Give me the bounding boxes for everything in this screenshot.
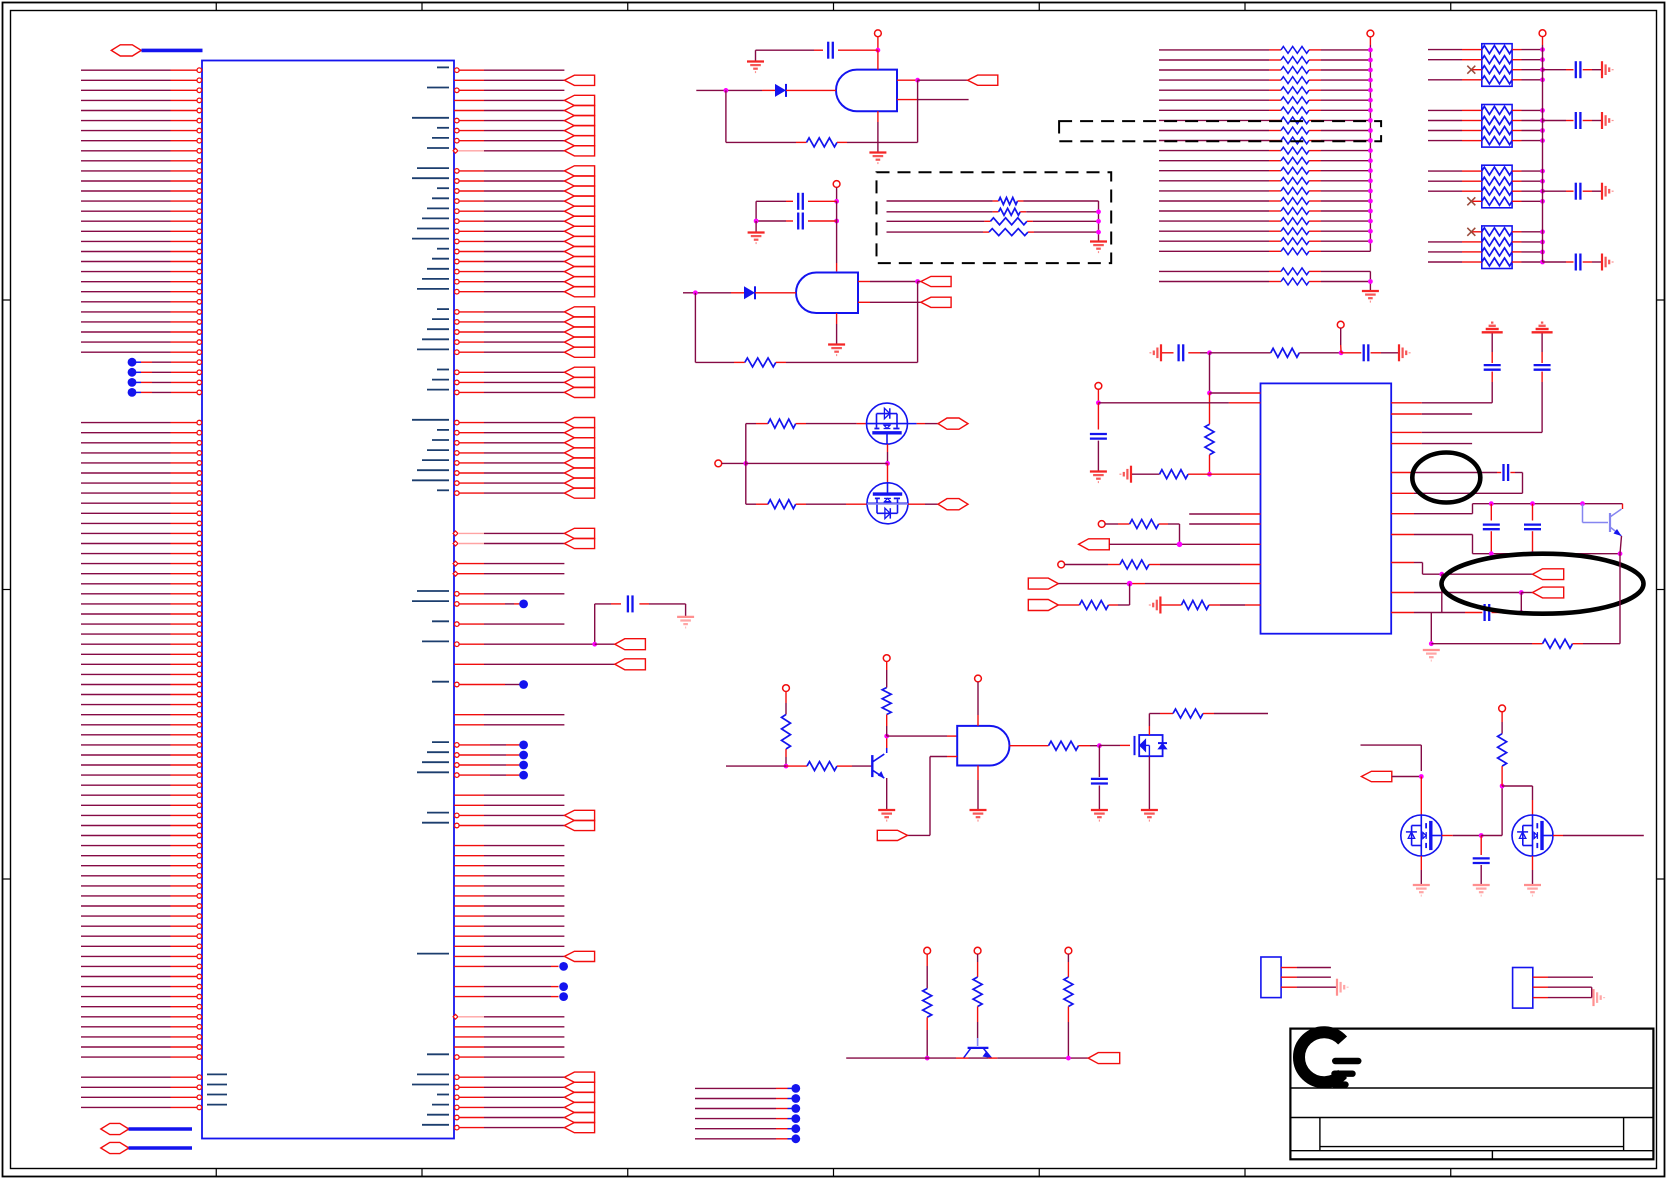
node junction JA9 bbox=[1368, 138, 1373, 143]
IC U1 left pin row 7 wire bbox=[81, 138, 202, 143]
capacitor C4 (vertical) bbox=[1091, 778, 1108, 780]
IC U1 right pin row 16 wire bbox=[417, 226, 595, 236]
node junction J5 bbox=[834, 219, 839, 224]
IC U1 left pin row 2 wire bbox=[81, 88, 202, 93]
wire corner RB rows to ground bbox=[1369, 271, 1371, 290]
IC U1 left pin row 30 wire with junction bbox=[128, 368, 202, 377]
IC U1 right pin row 6 wire bbox=[437, 126, 595, 136]
ground GND16 bbox=[1473, 884, 1490, 886]
node junction J4 bbox=[834, 199, 839, 204]
wire U2 input stub row2 bbox=[897, 99, 969, 101]
IC U1 left pin row 95 wire bbox=[81, 1025, 202, 1030]
wire R5 down to JC1 bbox=[785, 749, 787, 766]
IC U1 left pin row 17 wire bbox=[81, 239, 202, 244]
IC U1 left pin row 56 wire bbox=[81, 632, 202, 637]
wire CN2 pin2 corner down bbox=[1533, 987, 1592, 997]
wire R14 down to J12 bbox=[1209, 455, 1211, 474]
IC U1 right pin row 52 wire bbox=[417, 591, 564, 596]
IC U1 left pin row 42 wire bbox=[81, 491, 202, 496]
wire cap C2 row bbox=[756, 200, 793, 202]
border tick top 4 bbox=[833, 3, 835, 11]
node junction JP13 bbox=[1540, 138, 1545, 143]
capacitor C7 (vertical) bbox=[1090, 433, 1107, 435]
power pin PIN_L3 bbox=[1058, 561, 1065, 568]
wire VCC3 down to R5 bbox=[785, 692, 787, 715]
transistor Q4 (NPN sideways) bbox=[964, 1048, 992, 1058]
ground GND22 (inverted) bbox=[1532, 331, 1553, 333]
capacitor C5 bbox=[1177, 344, 1179, 361]
node junction J19 bbox=[1618, 551, 1623, 556]
node junction JA5 bbox=[1368, 98, 1373, 103]
IC U1 right pin row 77 wire bbox=[454, 845, 564, 847]
wire J9 down to J11 bbox=[1209, 353, 1211, 393]
power pin VCC7 bbox=[974, 947, 981, 954]
wire J4-J5 and down to U3 top bbox=[836, 201, 838, 271]
capacitor C13 (vertical) bbox=[1484, 364, 1501, 366]
wire PORT12 to J25 to U5 bbox=[1058, 583, 1260, 585]
resistor R16 bbox=[1543, 639, 1573, 648]
resistor RA20 row (array) bbox=[1159, 248, 1370, 255]
wire GND14 to R15 bbox=[1132, 473, 1160, 475]
IC U1 left pin row 21 wire bbox=[81, 279, 202, 284]
port PORT8 (arrow) bbox=[1533, 569, 1564, 580]
border tick right 3 bbox=[1657, 878, 1665, 880]
node junction JP01 bbox=[1540, 57, 1545, 62]
resistor RN2a row in dashed box bbox=[887, 198, 1099, 205]
node junction JA17 bbox=[1368, 219, 1373, 224]
capacitor CP4 bbox=[1543, 254, 1602, 271]
IC U1 left pin row 38 wire bbox=[81, 451, 202, 456]
resistor RP3a row bbox=[1428, 167, 1543, 175]
ground GND18 bbox=[1524, 884, 1541, 886]
resistor RA19 row (array) bbox=[1159, 238, 1370, 245]
node junction JM1 bbox=[743, 461, 748, 466]
and-gate U3 (left facing) bbox=[796, 273, 858, 314]
IC U1 right pin row 96 wire bbox=[454, 1036, 564, 1038]
IC U1 left pin row 5 wire bbox=[81, 118, 202, 123]
IC U1 right pin row 97 wire bbox=[454, 1046, 564, 1048]
IC U1 right pin row 79 wire bbox=[454, 865, 564, 867]
wire U5 pin row 612.5 to C11 bbox=[1391, 612, 1482, 614]
wire left riser top/bottom bbox=[745, 424, 747, 505]
title block line 1 bbox=[1290, 1087, 1653, 1089]
node junction JE3 bbox=[1500, 784, 1505, 789]
border tick top 6 bbox=[1244, 3, 1246, 11]
port PORT2 (arrow) bbox=[921, 276, 951, 286]
title block line 4 bbox=[1290, 1150, 1653, 1152]
IC U1 right pin row 69 wire to junction dot bbox=[422, 761, 528, 770]
IC U1 left pin row 26 wire bbox=[81, 330, 202, 335]
resistor RP1c row bbox=[1467, 66, 1542, 74]
node junction J16 bbox=[1580, 501, 1585, 506]
IC U1 left pin row 12 wire bbox=[81, 189, 202, 194]
wire JE3 right to M5 bbox=[1502, 786, 1532, 815]
capacitor C11 bbox=[1483, 604, 1485, 621]
IC U1 left pin row 9 wire bbox=[81, 159, 202, 164]
wire U2 bottom to ground bbox=[877, 142, 879, 151]
resistor RA3 row (array) bbox=[1159, 77, 1370, 84]
node junction JB3 bbox=[1096, 230, 1101, 235]
border tick bottom 5 bbox=[1038, 1169, 1040, 1177]
capacitor C9 (vertical) with leads bbox=[1483, 504, 1500, 554]
wire VCC12 to R17 bbox=[1501, 712, 1503, 734]
capacitor C3 bbox=[797, 213, 799, 230]
and-gate U2 (left facing) bbox=[836, 70, 897, 112]
ground GND_P4 (rotated) bbox=[1601, 254, 1603, 271]
IC U1 right pin row 105 wire bbox=[422, 1123, 595, 1133]
logo bar 1 bbox=[1335, 1058, 1358, 1064]
IC U1 right pin row 3 wire bbox=[454, 95, 595, 105]
IC U1 right pin row 12 wire bbox=[437, 186, 595, 196]
wire M5 source to GND18 bbox=[1532, 856, 1534, 884]
wire U5 pin right row1 to riser bbox=[1391, 372, 1492, 403]
IC U1 left pin row 43 wire bbox=[81, 501, 202, 506]
wire row 612.5 drop to bottom rail bbox=[1430, 613, 1432, 644]
ground GND5 bbox=[1090, 240, 1107, 242]
IC U1 left pin row 6 wire bbox=[81, 128, 202, 133]
ground GND10 bbox=[1362, 290, 1379, 292]
bus wire from P_TOP to IC U1 bbox=[142, 49, 203, 53]
node junction JP31 bbox=[1540, 240, 1545, 245]
resistor R5 (vertical) bbox=[782, 715, 791, 750]
border tick top 7 bbox=[1450, 3, 1452, 11]
wire U5 pin right row3 to riser bbox=[1391, 372, 1542, 433]
IC U1 left pin row 46 wire bbox=[81, 531, 202, 536]
wire JE2 down to C12 bbox=[1480, 836, 1482, 856]
wire JC3 to M3 gate bbox=[1099, 744, 1120, 746]
wire VCC7 to R11 bbox=[977, 954, 979, 977]
wire U5 left pin row 514 (flat) bbox=[1189, 513, 1260, 515]
IC U1 right pin row 10 wire bbox=[417, 166, 595, 176]
resistor RN2d row in dashed box bbox=[887, 229, 1099, 236]
IC U5 body bbox=[1261, 383, 1392, 633]
node junction JE1 bbox=[1419, 774, 1424, 779]
resistor R4 bbox=[768, 500, 796, 509]
IC U1 right pin row 84 wire bbox=[454, 915, 564, 917]
wire CN2 pin1 bbox=[1533, 976, 1593, 978]
resistor RA2 row (array) bbox=[1159, 67, 1370, 74]
resistor RA12 row (array) bbox=[1159, 167, 1370, 174]
port PORT1 (arrow) bbox=[968, 75, 998, 85]
wire R15 to J12 to U5 bbox=[1188, 473, 1260, 475]
power pin VCC6 bbox=[924, 947, 931, 954]
IC U1 left pin row 1 wire bbox=[81, 78, 202, 83]
resistor RA6 row (array) bbox=[1159, 107, 1370, 114]
wire bottom rail bbox=[846, 1057, 1088, 1059]
resistor RP3d row bbox=[1467, 197, 1542, 205]
wire U4 input2 from below port bbox=[908, 757, 958, 836]
ground GND14 (rotated, row left) bbox=[1130, 466, 1132, 483]
IC U1 left pin row 63 wire bbox=[81, 702, 202, 707]
wire J9 to R13 bbox=[1210, 352, 1271, 354]
border tick top 5 bbox=[1038, 3, 1040, 11]
IC U1 body (large) bbox=[202, 61, 454, 1139]
wire C4 to ground bbox=[1098, 786, 1100, 810]
node junction J10 bbox=[1339, 350, 1344, 355]
border tick bottom 6 bbox=[1244, 1169, 1246, 1177]
IC U1 left pin row 11 wire bbox=[81, 179, 202, 184]
wire J8 to port PORT2 bbox=[918, 281, 921, 283]
wire PIN_L1 down to J13 bbox=[1097, 389, 1099, 403]
wire PIN_L3 to R19 bbox=[1065, 564, 1120, 566]
wire U5 left pin row 524 (flat) bbox=[1189, 523, 1260, 525]
wire PIN_L2 to R18 bbox=[1105, 523, 1130, 525]
IC U1 left pin row 18 wire bbox=[81, 249, 202, 254]
resistor RP2b row bbox=[1428, 117, 1543, 125]
IC U1 left pin row 57 wire bbox=[81, 642, 202, 647]
port PORT13 (arrow right) row 605 bbox=[1028, 600, 1058, 611]
resistor R6 bbox=[807, 762, 837, 771]
IC U1 right pin row 57 wire with junction and port bbox=[422, 639, 645, 650]
resistor RP4b row bbox=[1428, 238, 1543, 246]
IC U1 left pin row 25 wire bbox=[81, 320, 202, 325]
resistor R1 bbox=[807, 138, 838, 147]
resistor R15 bbox=[1160, 470, 1189, 479]
ground GND_P3 (rotated) bbox=[1601, 183, 1603, 200]
IC U1 left pin row 16 wire bbox=[81, 229, 202, 234]
IC U1 right pin row 15 wire bbox=[422, 216, 595, 226]
IC U1 left pin row 73 wire bbox=[81, 803, 202, 808]
wire JE2 right and up to JE3 bbox=[1481, 786, 1502, 836]
node junction JC3 bbox=[1097, 743, 1102, 748]
IC U1 left pin row 55 wire bbox=[81, 622, 202, 627]
capacitor C_R1 net: wire corner bbox=[595, 603, 621, 605]
wire R6 to Q3 base bbox=[837, 765, 872, 767]
wire C1 to J1 bbox=[838, 49, 878, 51]
IC U1 left pin row 72 wire bbox=[81, 793, 202, 798]
IC U1 right pin row 5 wire bbox=[412, 116, 595, 126]
resistor RN2b row in dashed box bbox=[887, 208, 1099, 215]
IC U1 left pin row 79 wire bbox=[81, 863, 202, 868]
wire C14 up to inverted ground bbox=[1541, 332, 1543, 363]
IC U1 left pin row 58 wire bbox=[81, 652, 202, 657]
capacitor C12 (vertical) bbox=[1473, 857, 1490, 859]
IC U1 right pin row 25 wire bbox=[432, 317, 595, 327]
ground GND4 bbox=[828, 343, 845, 345]
node junction J1 bbox=[876, 48, 881, 53]
IC U1 right pin row 82 wire bbox=[454, 895, 564, 897]
transistor Q5 (light blue) with base wire bbox=[1583, 504, 1622, 536]
node junction JA1 bbox=[1368, 58, 1373, 63]
IC U1 left pin row 67 wire bbox=[81, 743, 202, 748]
IC U1 right pin row 85 wire bbox=[454, 925, 564, 927]
resistor RA5 row (array) bbox=[1159, 97, 1370, 104]
IC U1 right pin row 17 wire bbox=[412, 236, 595, 246]
wire U5 pin row 562.5 step to J20 bbox=[1391, 563, 1442, 575]
node junction JA19 bbox=[1368, 239, 1373, 244]
ground GND1 bbox=[747, 60, 764, 62]
wire cap C3 row bbox=[756, 220, 793, 222]
node junction J6 bbox=[754, 219, 759, 224]
ground GND13 bbox=[1090, 470, 1107, 472]
node junction JP32 bbox=[1540, 250, 1545, 255]
wire C12 to GND16 bbox=[1480, 865, 1482, 884]
wire CN2 pin3 to ground bbox=[1533, 997, 1592, 999]
resistor RA16 row (array) bbox=[1159, 208, 1370, 215]
wire R8 to JC3 bbox=[1079, 745, 1100, 747]
IC U1 left pin row 59 wire bbox=[81, 662, 202, 667]
bus wire from P_BL2 bbox=[129, 1146, 193, 1150]
IC U1 left pin row 32 wire with junction bbox=[128, 388, 202, 397]
resistor R8 bbox=[1049, 741, 1079, 750]
ground GND21 (inverted) bbox=[1482, 331, 1503, 333]
node junction J9 bbox=[1207, 350, 1212, 355]
node junction J24 bbox=[1177, 542, 1183, 548]
port PORT9 (arrow) bbox=[1533, 587, 1564, 598]
annotation ellipse 1 (black) bbox=[1412, 453, 1480, 503]
IC U1 left pin row 22 wire bbox=[81, 289, 202, 294]
IC U1 left pin row 102 wire bbox=[81, 1095, 227, 1100]
title block line 2 bbox=[1290, 1117, 1653, 1119]
IC U1 left pin row 52 wire bbox=[81, 592, 202, 597]
IC U1 left pin row 60 wire bbox=[81, 672, 202, 677]
capacitor C_R1 bbox=[627, 595, 629, 612]
IC U1 left pin row 31 wire with junction bbox=[128, 378, 202, 387]
node junction J21 bbox=[1519, 590, 1524, 595]
resistor RB1 row (below array) bbox=[1159, 278, 1370, 285]
IC U1 left pin row 69 wire bbox=[81, 763, 202, 768]
IC U1 right pin row 67 wire to junction dot bbox=[432, 741, 528, 750]
wire U2 bottom down bbox=[877, 111, 879, 142]
node junction J3 bbox=[915, 78, 920, 83]
node junction JD1 bbox=[925, 1056, 930, 1061]
wire J10 to C6 bbox=[1341, 352, 1361, 354]
capacitor C8 bbox=[1502, 464, 1504, 481]
IC U1 right pin row 91 wire to junction dot bbox=[454, 982, 568, 991]
node junction J2 bbox=[724, 88, 729, 93]
IC U1 right pin row 88 wire bbox=[417, 951, 595, 961]
port PORT6 (arrow right) bbox=[877, 830, 907, 840]
node junction JP20 bbox=[1540, 169, 1545, 174]
IC U1 left pin row 35 wire bbox=[81, 420, 202, 425]
IC U1 left pin row 98 wire bbox=[81, 1055, 202, 1060]
node junction JA13 bbox=[1368, 178, 1373, 183]
IC U1 left pin row 48 wire bbox=[81, 551, 202, 556]
power pin VCC11 bbox=[1337, 321, 1344, 328]
wire J11 to U5 pin bbox=[1210, 392, 1261, 394]
IC U1 right pin row 32 wire bbox=[427, 387, 595, 397]
wire U3 input stub row2 to port PORT3 bbox=[858, 301, 921, 303]
resistor RA8 row (array) bbox=[1159, 127, 1370, 134]
node junction JA15 bbox=[1368, 199, 1373, 204]
IC U1 left pin row 20 wire bbox=[81, 269, 202, 274]
node junction JA14 bbox=[1368, 189, 1373, 194]
wire J21 to port PORT9 bbox=[1521, 592, 1532, 594]
IC U1 left pin row 62 wire bbox=[81, 692, 202, 697]
off-page port P_BL2 (hexagon) bottom left bbox=[101, 1142, 129, 1153]
IC U1 left pin row 87 wire bbox=[81, 944, 202, 949]
port PORT12 (arrow right) row 583.6 bbox=[1028, 578, 1058, 589]
node junction JA11 bbox=[1368, 158, 1373, 163]
ground GND_P2 (rotated) bbox=[1601, 112, 1603, 129]
resistor RP4d row bbox=[1428, 258, 1543, 266]
border tick left 2 bbox=[3, 589, 11, 591]
IC U1 right pin row 49 wire bbox=[453, 561, 564, 566]
wire J13 to U5 pin row 402.8 bbox=[1098, 402, 1260, 404]
IC U1 left pin row 75 wire bbox=[81, 823, 202, 828]
node junction JD2 bbox=[1066, 1056, 1071, 1061]
border tick left 3 bbox=[3, 878, 11, 880]
power pin PIN_L1 bbox=[1095, 383, 1102, 390]
border tick bottom 2 bbox=[421, 1169, 423, 1177]
IC U1 left pin row 97 wire bbox=[81, 1045, 202, 1050]
IC U1 left pin row 78 wire bbox=[81, 853, 202, 858]
title block outer frame bbox=[1290, 1029, 1653, 1160]
wire bottom rail to R16 bbox=[1431, 643, 1542, 645]
transistor Q1 (MOSFET in circle) bbox=[867, 403, 908, 444]
resistor R12 (vertical) bbox=[1064, 977, 1073, 1007]
IC U1 left pin row 76 wire bbox=[81, 833, 202, 838]
IC U1 left pin row 24 wire bbox=[81, 310, 202, 315]
IC U1 left pin row 27 wire bbox=[81, 340, 202, 345]
ground GND17 bbox=[1413, 884, 1430, 886]
node junction JP22 bbox=[1540, 189, 1545, 194]
power pin PIN_M1 (left) bbox=[715, 460, 722, 467]
resistor R21 bbox=[1181, 601, 1209, 610]
title block line 3 bbox=[1320, 1146, 1624, 1148]
IC U1 left pin row 29 wire with junction bbox=[128, 358, 202, 367]
node junction J13 bbox=[1096, 400, 1101, 405]
wire bottom row lead bbox=[746, 503, 768, 505]
node junction JA6 bbox=[1368, 108, 1373, 113]
resistor RP1d row bbox=[1428, 76, 1543, 84]
capacitor C1 bbox=[827, 42, 829, 59]
wire J20 down to row 612.5 bbox=[1441, 574, 1443, 612]
port PORT3 (arrow) bbox=[921, 297, 951, 307]
IC U1 left pin row 94 wire bbox=[81, 1015, 202, 1020]
resistor RP1b row bbox=[1428, 56, 1543, 64]
wire U5 pin row 534.5 riser to bottom rail bbox=[1391, 535, 1620, 554]
IC U1 right pin row 73 wire bbox=[454, 804, 564, 806]
IC U1 right pin row 14 wire bbox=[427, 206, 595, 216]
resistor RA11 row (array) bbox=[1159, 157, 1370, 164]
wire R20 to riser corner bbox=[1109, 604, 1130, 606]
port PORT11 (arrow) row 544 bbox=[1079, 539, 1110, 550]
node junction J20 bbox=[1439, 572, 1444, 577]
IC U1 left pin row 66 wire bbox=[81, 733, 202, 738]
node junction JA10 bbox=[1368, 148, 1373, 153]
wire Q5 collector to top rail corner bbox=[1622, 504, 1624, 509]
IC U1 right pin row 20 wire bbox=[427, 267, 595, 277]
IC U1 right pin row 103 wire bbox=[432, 1102, 595, 1112]
resistor RA7 row (array) bbox=[1159, 117, 1370, 124]
wire J6 down to ground bbox=[755, 221, 757, 232]
border tick bottom 4 bbox=[833, 1169, 835, 1177]
resistor RP2c row bbox=[1428, 127, 1543, 135]
resistor R13 bbox=[1271, 348, 1300, 357]
resistor RP3b row bbox=[1428, 177, 1543, 185]
resistor pack RP2 body bbox=[1482, 105, 1512, 148]
node junction J23 bbox=[1429, 641, 1434, 646]
wire input net to D2 bbox=[683, 292, 744, 294]
wire CN1 pin1 bbox=[1281, 967, 1331, 969]
power pin VCC8 bbox=[1065, 947, 1072, 954]
border tick top 2 bbox=[421, 3, 423, 11]
IC U1 right pin row 78 wire bbox=[454, 855, 564, 857]
resistor RA9 row (array) bbox=[1159, 137, 1370, 144]
wire C8 loop back to row 493.3 bbox=[1391, 473, 1522, 494]
node junction J15 bbox=[1530, 501, 1535, 506]
node junction JP02 bbox=[1540, 67, 1545, 72]
resistor RA17 row (array) bbox=[1159, 218, 1370, 225]
connector CN2 body bbox=[1513, 968, 1533, 1009]
wire through Q2 (highlight) bbox=[867, 503, 908, 505]
IC U1 right pin row 13 wire bbox=[432, 196, 595, 206]
resistor R18 bbox=[1130, 520, 1159, 529]
wire JM1 to JM2 bbox=[746, 462, 888, 464]
IC U1 right pin row 94 wire bbox=[453, 1014, 564, 1019]
node junction JE2 bbox=[1479, 833, 1484, 838]
